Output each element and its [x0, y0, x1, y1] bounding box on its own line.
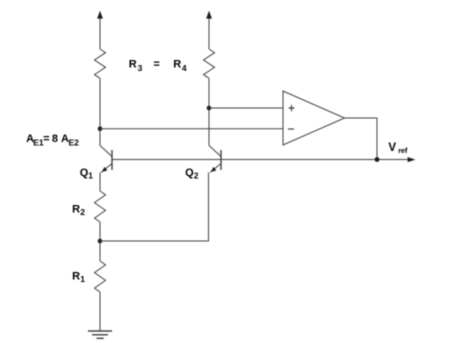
svg-text:8: 8 [52, 133, 58, 145]
resistor R3 [95, 49, 106, 78]
node A (R3 / Q1 collector / op-amp inverting input) [98, 126, 103, 131]
wire: node C to Q2 emitter [100, 173, 209, 242]
svg-text:2: 2 [80, 207, 85, 217]
svg-text:1: 1 [88, 171, 93, 181]
ground [88, 331, 112, 338]
resistor R4 [204, 49, 215, 78]
transistor Q2 [209, 146, 221, 173]
svg-text:V: V [388, 142, 396, 154]
svg-text:1: 1 [80, 274, 85, 284]
op-amp output wire [345, 118, 378, 160]
svg-text:E2: E2 [69, 138, 80, 148]
base wire (Q1 base to Q2 base to Vref node, with output arrow) [112, 157, 415, 162]
svg-text:2: 2 [194, 171, 199, 181]
svg-text:R: R [173, 58, 181, 70]
label Vref [388, 142, 407, 155]
label Q2 [185, 167, 199, 181]
supply arrow left (top of R3 branch) [97, 11, 103, 49]
svg-text:R: R [72, 204, 80, 216]
wire: Q1 emitter to R2 [99, 173, 101, 192]
wire: node A to op-amp inverting input [100, 128, 283, 130]
transistor Q1 [100, 146, 112, 173]
label R2 [72, 204, 85, 217]
label R3 = R4 [129, 58, 187, 73]
resistor R1 [95, 261, 106, 292]
supply arrow right (top of R4 branch) [206, 11, 212, 49]
node Vref (op-amp output to base rail) [375, 157, 380, 162]
label AE1 = 8 AE2 [26, 133, 79, 147]
resistor R2 [95, 191, 106, 222]
svg-text:=: = [153, 58, 159, 70]
label Q1 [80, 167, 93, 181]
wire: R1 to ground [99, 292, 101, 331]
wire: node B to op-amp non-inverting input [209, 107, 283, 109]
wire: R3 to Q1 collector [99, 78, 101, 145]
wire: R4 to Q2 collector [208, 78, 210, 145]
svg-text:4: 4 [182, 63, 187, 73]
svg-text:=: = [43, 133, 49, 145]
svg-text:R: R [129, 58, 137, 70]
svg-text:3: 3 [138, 63, 143, 73]
svg-text:R: R [72, 270, 80, 282]
wire: R2 to R1 through node C [99, 222, 101, 261]
node B (R4 / Q2 collector / op-amp non-inverting input) [207, 106, 212, 111]
svg-text:Q: Q [185, 167, 194, 179]
node C (R2 / R1 / Q2 emitter junction) [98, 239, 103, 244]
svg-text:ref: ref [398, 146, 408, 155]
op-amp U1 [283, 91, 345, 145]
label R1 [72, 270, 85, 284]
